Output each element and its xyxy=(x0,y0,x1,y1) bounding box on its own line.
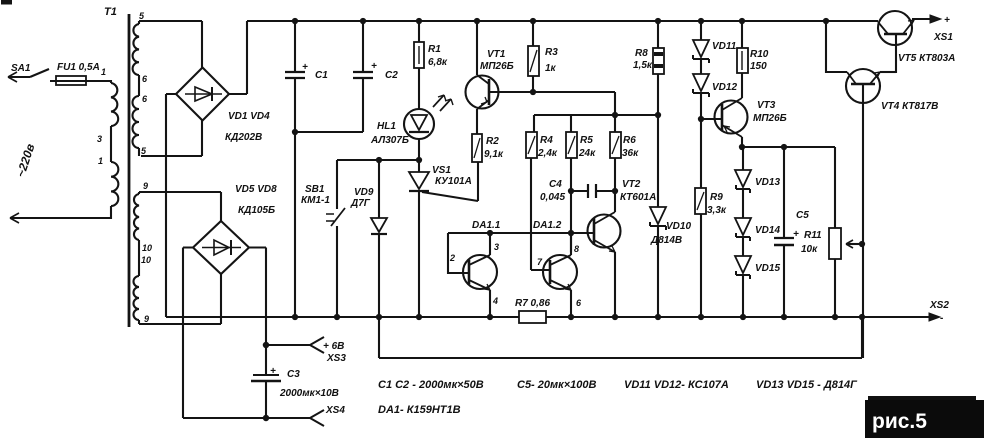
transistor VT3 xyxy=(715,98,748,147)
node mid junctions xyxy=(293,90,864,246)
transistor VT4 xyxy=(826,21,896,358)
svg-text:VT5 КТ803А: VT5 КТ803А xyxy=(898,53,955,64)
svg-text:FU1 0,5A: FU1 0,5A xyxy=(57,62,100,73)
scan corner mark xyxy=(1,0,12,5)
label SB1 xyxy=(301,184,330,206)
label VT1 xyxy=(480,49,514,72)
wire top plus rail xyxy=(247,20,878,22)
svg-text:36к: 36к xyxy=(622,148,639,159)
svg-text:+: + xyxy=(793,229,799,240)
label XS2 xyxy=(929,300,949,324)
svg-text:DA1.2: DA1.2 xyxy=(533,220,562,231)
label VD12 xyxy=(712,82,737,93)
label VD5-VD8 xyxy=(235,184,277,216)
svg-text:+: + xyxy=(302,62,308,73)
svg-text:С5- 20мк×100В: С5- 20мк×100В xyxy=(517,379,597,391)
label VT3 xyxy=(753,100,787,124)
wire divider feed bus xyxy=(534,92,658,132)
svg-text:VD9: VD9 xyxy=(354,187,374,198)
label XS3 xyxy=(323,341,346,364)
svg-text:АЛ307Б: АЛ307Б xyxy=(370,135,409,146)
label XS4 xyxy=(325,405,345,416)
node bottom rail junctions xyxy=(293,315,864,319)
svg-text:R8: R8 xyxy=(635,48,648,59)
svg-text:КД202В: КД202В xyxy=(225,132,262,143)
transformer T1 secondary winding I (pins 5-6-6-5) xyxy=(133,21,139,156)
wire pin5 bottom to bridge xyxy=(141,120,202,156)
label SA1 xyxy=(11,63,31,74)
label R11 xyxy=(801,230,822,255)
svg-text:КТ601А: КТ601А xyxy=(620,192,656,203)
svg-text:+: + xyxy=(270,366,276,377)
svg-text:DA1.1: DA1.1 xyxy=(472,220,501,231)
svg-text:С1 С2 - 2000мк×50В: С1 С2 - 2000мк×50В xyxy=(378,379,484,391)
resistor R7 (in bottom rail) xyxy=(519,311,546,323)
svg-text:VS1: VS1 xyxy=(432,165,451,176)
label DA1.1 xyxy=(472,220,501,231)
resistor R8 xyxy=(653,21,664,207)
connector XS2 wire xyxy=(896,313,940,321)
svg-text:VD11 VD12- КС107А: VD11 VD12- КС107А xyxy=(624,379,729,391)
wire VT1 base bus xyxy=(489,91,615,93)
label VD10 xyxy=(650,221,691,246)
label FU1 value xyxy=(57,62,100,73)
svg-text:SB1: SB1 xyxy=(305,184,325,195)
label VD14 xyxy=(755,225,780,236)
svg-text:2000мк×10В: 2000мк×10В xyxy=(279,388,339,399)
label C1 xyxy=(302,62,328,81)
svg-text:С4: С4 xyxy=(549,179,562,190)
svg-text:1: 1 xyxy=(101,67,106,77)
wire bottom return loop xyxy=(379,317,862,358)
svg-text:VD11: VD11 xyxy=(712,41,737,52)
svg-text:VD13 VD15 - Д814Г: VD13 VD15 - Д814Г xyxy=(756,379,858,391)
wire bridge1 minus output to bottom rail xyxy=(166,94,176,317)
svg-text:VT4 КТ817В: VT4 КТ817В xyxy=(881,101,938,112)
svg-text:1к: 1к xyxy=(545,63,557,74)
svg-text:4: 4 xyxy=(492,296,498,306)
node top rail junctions xyxy=(293,19,828,23)
capacitor C3 xyxy=(251,375,281,418)
svg-text:HL1: HL1 xyxy=(377,121,396,132)
resistor R5 xyxy=(566,132,577,252)
wire VT3 emitter bus xyxy=(742,146,835,148)
transistor VT1 xyxy=(466,21,499,134)
svg-text:6,8к: 6,8к xyxy=(428,57,448,68)
svg-text:R7 0,86: R7 0,86 xyxy=(515,298,550,309)
svg-text:VD12: VD12 xyxy=(712,82,737,93)
svg-text:R1: R1 xyxy=(428,44,441,55)
transistor VT5 xyxy=(878,11,914,73)
svg-text:R6: R6 xyxy=(623,135,636,146)
svg-text:VT2: VT2 xyxy=(622,179,641,190)
label C4 xyxy=(540,179,565,203)
switch SA1 xyxy=(8,69,49,82)
bridge rectifier VD5-VD8 xyxy=(193,221,249,274)
wire SB1/VD9 bus xyxy=(337,159,419,161)
label VD15 xyxy=(755,263,780,274)
capacitor C1 xyxy=(285,21,305,317)
svg-text:VD1 VD4: VD1 VD4 xyxy=(228,111,270,122)
label VD9 xyxy=(350,187,374,209)
wire pin9 top to bridge2 xyxy=(139,192,221,221)
svg-text:VT1: VT1 xyxy=(487,49,506,60)
wire bridge2 output to XS4 line xyxy=(183,248,193,419)
transformer T1 primary winding xyxy=(10,80,118,223)
node C3 bottom junction xyxy=(264,416,268,420)
svg-text:R9: R9 xyxy=(710,192,723,203)
resistor R3 xyxy=(528,21,539,92)
label VD11 xyxy=(712,41,737,52)
wire base node DA1 xyxy=(448,233,594,273)
label primary pins xyxy=(97,67,106,166)
zener diode VD13 xyxy=(735,147,751,218)
svg-text:R3: R3 xyxy=(545,47,558,58)
label VS1 xyxy=(432,165,472,187)
resistor R1 xyxy=(414,21,424,109)
label R5 xyxy=(578,135,596,159)
transformer T1 core xyxy=(128,14,131,327)
potentiometer R11 xyxy=(829,147,862,317)
svg-text:рис.5: рис.5 xyxy=(872,410,927,433)
label C2 xyxy=(371,61,398,81)
svg-text:R5: R5 xyxy=(580,135,593,146)
svg-text:R11: R11 xyxy=(804,230,822,241)
label DA pins xyxy=(449,242,582,308)
resistor R2 xyxy=(472,134,482,201)
resistor R9 xyxy=(695,188,706,317)
zener diode VD15 xyxy=(735,256,751,317)
svg-text:С1: С1 xyxy=(315,70,328,81)
resistor R4 xyxy=(526,132,537,270)
capacitor C4 xyxy=(571,184,615,198)
wire HL1 to VS1 xyxy=(418,139,420,172)
label R4 xyxy=(537,135,558,159)
caption parts list line 2 xyxy=(378,404,461,416)
label XS1 xyxy=(933,15,953,43)
zener diode VD14 xyxy=(735,218,751,256)
capacitor C2 xyxy=(353,21,373,132)
svg-text:9: 9 xyxy=(143,181,148,191)
svg-text:10: 10 xyxy=(141,255,151,265)
label VD1-VD4 xyxy=(225,111,270,143)
svg-text:10: 10 xyxy=(142,243,152,253)
svg-text:VD13: VD13 xyxy=(755,177,780,188)
svg-text:R2: R2 xyxy=(486,136,499,147)
wire pin9 bottom to bridge2 xyxy=(139,274,221,324)
zener diode VD12 xyxy=(693,74,709,188)
svg-text:2,4к: 2,4к xyxy=(537,148,558,159)
label DA1.2 xyxy=(533,220,562,231)
label VT5 xyxy=(898,53,955,64)
resistor R6 xyxy=(610,132,621,212)
label R2 xyxy=(484,136,504,160)
connector XS3 wire xyxy=(266,337,324,353)
zener diode VD11 xyxy=(693,21,709,74)
svg-text:КМ1-1: КМ1-1 xyxy=(301,195,330,206)
label ~220v xyxy=(14,142,38,179)
svg-text:Д814В: Д814В xyxy=(650,235,682,246)
svg-text:R4: R4 xyxy=(540,135,553,146)
connector XS1 wire xyxy=(912,15,941,23)
label R7 xyxy=(515,298,550,309)
svg-text:2: 2 xyxy=(449,253,455,263)
label R10 xyxy=(750,49,769,72)
svg-text:SA1: SA1 xyxy=(11,63,31,74)
label T1 xyxy=(104,6,117,18)
button SB1 xyxy=(326,160,345,317)
node C3 top junction xyxy=(264,343,268,347)
zener diode VD10 xyxy=(650,207,666,317)
svg-text:0,045: 0,045 xyxy=(540,192,565,203)
label secondary I pins xyxy=(139,11,148,156)
svg-text:VD10: VD10 xyxy=(666,221,691,232)
svg-text:МП26Б: МП26Б xyxy=(753,113,787,124)
label secondary II pins xyxy=(141,181,152,324)
wire bottom minus rail right part xyxy=(546,316,896,318)
wire VT3 base lead xyxy=(701,118,722,120)
svg-text:ХS4: ХS4 xyxy=(325,405,345,416)
svg-text:С2: С2 xyxy=(385,70,398,81)
svg-text:ХS1: ХS1 xyxy=(933,32,953,43)
svg-text:+: + xyxy=(944,15,950,26)
label HL1 xyxy=(370,121,409,146)
label C3 xyxy=(270,366,339,399)
svg-text:R10: R10 xyxy=(750,49,769,60)
label R3 xyxy=(545,47,558,74)
wire C2 bottom to C1 column xyxy=(295,131,363,133)
svg-text:1,5к: 1,5к xyxy=(633,60,653,71)
wire bridge1 plus output to top rail xyxy=(229,21,247,94)
wire pin5 top to bridge xyxy=(139,21,202,68)
svg-text:9: 9 xyxy=(144,314,149,324)
label R1 xyxy=(428,44,448,68)
capacitor C5 xyxy=(774,147,794,317)
transformer T1 secondary winding II (pins 9-10-10-9) xyxy=(134,192,140,324)
svg-text:КД105Б: КД105Б xyxy=(238,205,275,216)
connector XS4 wire xyxy=(183,410,324,426)
svg-text:3: 3 xyxy=(494,242,499,252)
transistor DA1.1 xyxy=(463,233,497,317)
label VT2 xyxy=(620,179,656,203)
svg-text:10к: 10к xyxy=(801,244,818,255)
wire bridge2 output to C3 column xyxy=(249,248,266,375)
svg-text:КУ101А: КУ101А xyxy=(435,176,472,187)
svg-text:МП26Б: МП26Б xyxy=(480,61,514,72)
svg-text:Д7Г: Д7Г xyxy=(350,198,371,209)
figure label box xyxy=(865,396,984,438)
svg-text:VT3: VT3 xyxy=(757,100,776,111)
svg-text:DA1- К159НТ1В: DA1- К159НТ1В xyxy=(378,404,461,416)
fuse FU1 xyxy=(50,76,111,85)
label VT4 xyxy=(881,101,938,112)
label VD13 xyxy=(755,177,780,188)
svg-text:9,1к: 9,1к xyxy=(484,149,504,160)
svg-text:ХS2: ХS2 xyxy=(929,300,949,311)
svg-text:24к: 24к xyxy=(578,148,596,159)
svg-text:С3: С3 xyxy=(287,369,300,380)
svg-text:1: 1 xyxy=(98,156,103,166)
svg-text:+ 6В: + 6В xyxy=(323,341,344,352)
label R9 xyxy=(707,192,727,216)
svg-text:VD5 VD8: VD5 VD8 xyxy=(235,184,277,195)
thyristor VS1 xyxy=(409,172,478,317)
svg-text:T1: T1 xyxy=(104,6,117,18)
svg-text:VD14: VD14 xyxy=(755,225,780,236)
diode VD9 xyxy=(371,160,387,358)
caption parts list line 1 xyxy=(378,379,858,391)
svg-text:С5: С5 xyxy=(796,210,809,221)
LED HL1 xyxy=(404,95,453,139)
label C5 xyxy=(793,210,809,240)
resistor R10 xyxy=(737,21,748,98)
bridge rectifier VD1-VD4 xyxy=(176,68,229,121)
svg-text:VD15: VD15 xyxy=(755,263,780,274)
transistor VT2 xyxy=(588,212,621,317)
wire bottom minus rail left part xyxy=(166,316,519,318)
svg-text:+: + xyxy=(371,61,377,72)
label R8 xyxy=(633,48,653,71)
svg-text:150: 150 xyxy=(750,61,767,72)
transistor DA1.2 xyxy=(531,233,577,317)
svg-text:3: 3 xyxy=(97,134,102,144)
svg-text:ХS3: ХS3 xyxy=(326,353,346,364)
label R6 xyxy=(622,135,639,159)
svg-text:3,3к: 3,3к xyxy=(707,205,727,216)
svg-text:8: 8 xyxy=(574,244,579,254)
